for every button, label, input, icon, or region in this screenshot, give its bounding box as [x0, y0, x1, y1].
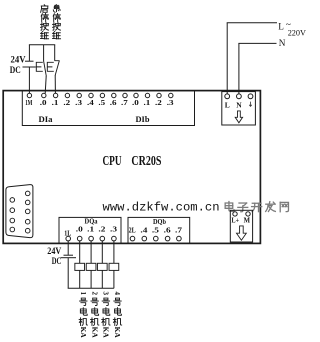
output strip DQa box: [59, 217, 121, 244]
terminal 1L (DQa): [64, 228, 71, 241]
wire bus to button SB1: [43, 45, 45, 61]
svg-text:.4: .4: [140, 226, 147, 235]
terminal L: [225, 94, 230, 109]
terminal .1 (DQa): [87, 225, 94, 241]
DIb group label: [136, 115, 150, 124]
svg-text:.0: .0: [132, 98, 139, 107]
wire coil 1KA to common bus: [79, 270, 81, 288]
svg-text:2: 2: [90, 291, 98, 295]
svg-text:CR20S: CR20S: [131, 153, 161, 168]
terminal L+: [232, 212, 240, 225]
DC box orientation arrow: [237, 226, 247, 240]
svg-text:.7: .7: [121, 98, 128, 107]
terminal .2 (top strip): [63, 93, 70, 107]
svg-text:L+: L+: [232, 217, 240, 224]
terminal .1 (top strip): [52, 93, 59, 107]
terminal .0 (DQa): [76, 225, 83, 241]
terminal .3 (top strip): [167, 93, 174, 107]
label L ~220V: [278, 20, 306, 37]
svg-text:.2: .2: [98, 225, 105, 234]
terminal .5 (top strip): [98, 93, 105, 107]
svg-text:KA: KA: [113, 327, 122, 339]
svg-text:2L: 2L: [129, 226, 136, 235]
svg-text:.6: .6: [164, 226, 171, 235]
svg-text:.4: .4: [87, 98, 94, 107]
svg-text:N: N: [279, 38, 286, 48]
svg-text:L: L: [278, 21, 284, 31]
common return bus (bottom): [68, 287, 114, 289]
svg-text:1M: 1M: [25, 98, 32, 107]
wire coil 2KA to common bus: [90, 270, 92, 288]
node bus: button common rail: [29, 44, 55, 46]
terminal .7 (DQb): [175, 226, 182, 241]
label 24V DC (input supply): [10, 55, 26, 75]
power terminal box (L N PE): [222, 92, 256, 125]
power box orientation arrow: [235, 111, 242, 123]
CPU CR20S label: [103, 153, 162, 168]
battery GB1 24V DC: [23, 61, 36, 67]
label 启停按钮 (start/stop button): [41, 5, 49, 39]
svg-text:KA: KA: [90, 327, 99, 339]
DIa group label: [39, 115, 53, 124]
svg-text:.3: .3: [75, 98, 82, 107]
svg-text:1L: 1L: [64, 228, 71, 237]
svg-text:.1: .1: [87, 225, 94, 234]
terminal M: [244, 212, 251, 225]
relay coil 2KA: [86, 263, 96, 270]
wire SB2 to terminal .1: [54, 75, 56, 93]
label 24V DC (output supply): [47, 246, 61, 266]
svg-text:DIb: DIb: [136, 115, 150, 124]
wire coil 3KA to common bus: [101, 270, 103, 288]
wire SB1 to terminal .0: [45, 76, 46, 93]
svg-text:.5: .5: [98, 98, 105, 107]
label 1号电机KA (motor 1): [79, 291, 88, 338]
relay coil 4KA: [109, 263, 119, 270]
wire terminal .3 to coil 4KA: [113, 241, 115, 263]
wire bus to button SB2: [54, 45, 56, 61]
svg-text:L: L: [225, 100, 230, 109]
terminal 2L (DQb): [129, 226, 136, 241]
svg-text:KA: KA: [79, 327, 88, 339]
DC output box L+ M: [230, 210, 252, 242]
watermark www.dzkfw.com.cn: [103, 201, 220, 215]
svg-text:N: N: [236, 100, 242, 109]
svg-text:24V: 24V: [47, 246, 61, 256]
input terminal strip DIa/DIb: [22, 91, 194, 126]
terminal .6 (top strip): [110, 93, 117, 107]
DB9 serial connector J1: [6, 185, 33, 238]
svg-text:.3: .3: [167, 98, 174, 107]
wire coil 4KA to common bus: [113, 270, 115, 288]
terminal 1M (top strip): [25, 93, 32, 107]
wire battery GB2 to common bus: [67, 258, 69, 288]
battery GB2 24V DC (output supply): [61, 255, 77, 258]
wire terminal .2 to coil 3KA: [101, 241, 103, 263]
svg-text:KA: KA: [102, 327, 111, 339]
svg-text:DIa: DIa: [39, 115, 53, 124]
svg-text:.3: .3: [110, 225, 117, 234]
terminal N: [236, 94, 242, 109]
push button SB2 (emergency stop, NC contact): [47, 61, 59, 75]
watermark 电子开发网: [225, 202, 288, 212]
svg-text:.1: .1: [144, 98, 151, 107]
terminal .3 (DQa): [110, 225, 117, 241]
relay coil 3KA: [97, 263, 107, 270]
relay coil 1KA: [75, 263, 85, 270]
svg-text:4: 4: [113, 291, 121, 295]
svg-text:DC: DC: [10, 65, 21, 75]
svg-text:M: M: [244, 217, 251, 224]
terminal .5 (DQb): [152, 226, 159, 241]
wire terminal .0 to coil 1KA: [79, 241, 81, 263]
terminal .2 (DQa): [98, 225, 105, 241]
terminal .2 (top strip): [155, 93, 162, 107]
terminal .6 (DQb): [164, 226, 171, 241]
svg-text:DC: DC: [52, 256, 62, 266]
terminal .1 (top strip): [144, 93, 151, 107]
push button SB1 (start, NO contact): [36, 61, 46, 76]
svg-text:.5: .5: [152, 226, 159, 235]
svg-text:.2: .2: [155, 98, 162, 107]
svg-text:24V: 24V: [11, 55, 26, 65]
terminal PE (earth): [248, 94, 253, 107]
wire terminal 1L down: [67, 241, 69, 255]
PLC main body U1 (CPU CR20S): [3, 91, 260, 244]
svg-text:220V: 220V: [288, 28, 307, 38]
svg-text:1: 1: [79, 291, 87, 295]
terminal .4 (top strip): [87, 93, 94, 107]
svg-text:www.dzkfw.com.cn: www.dzkfw.com.cn: [103, 201, 220, 215]
svg-text:.7: .7: [175, 226, 182, 235]
terminal .0 (top strip): [40, 93, 47, 107]
output strip DQb box: [128, 217, 190, 244]
svg-text:.2: .2: [63, 98, 70, 107]
wire battery GB1 to terminal 1M: [28, 67, 30, 93]
svg-text:3: 3: [102, 291, 110, 295]
terminal .3 (top strip): [75, 93, 82, 107]
svg-text:.6: .6: [110, 98, 117, 107]
wire terminal .1 to coil 2KA: [90, 241, 92, 263]
wire bus to battery GB1: [28, 45, 30, 61]
svg-text:.0: .0: [76, 225, 83, 234]
label 急停按钮 (emergency stop button): [53, 5, 61, 39]
svg-text:CPU: CPU: [103, 153, 122, 168]
label 3号电机KA (motor 3): [102, 291, 111, 338]
label N: [279, 38, 286, 48]
terminal .4 (DQb): [140, 226, 147, 241]
terminal .0 (top strip): [132, 93, 139, 107]
terminal .7 (top strip): [121, 93, 128, 107]
svg-text:.0: .0: [40, 98, 47, 107]
label 2号电机KA (motor 2): [90, 291, 99, 338]
wire L phase (to ~220V): [227, 23, 277, 94]
label 4号电机KA (motor 4): [113, 291, 122, 338]
wire N neutral: [238, 43, 276, 93]
svg-text:.1: .1: [52, 98, 59, 107]
